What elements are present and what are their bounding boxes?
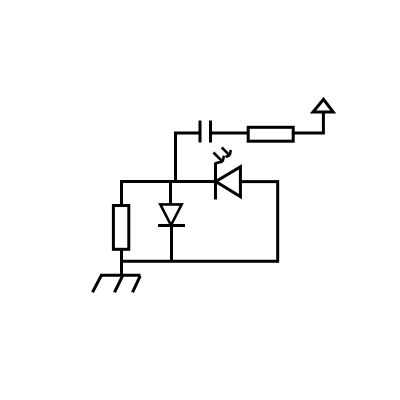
ground <box>93 275 141 292</box>
wire: diode D1 cathode to bottom bus <box>170 226 173 262</box>
photodiode D2 <box>216 163 241 200</box>
wire: capacitor left lead to node A <box>176 133 199 182</box>
antenna <box>313 99 333 112</box>
wire: resistor R1 to antenna <box>293 112 323 133</box>
wire: node A to resistor R2 <box>120 180 123 206</box>
light arrow 2 into photodiode D2 <box>222 147 231 157</box>
wire: resistor R2 to ground <box>120 249 123 275</box>
light arrow 1 into photodiode D2 <box>213 152 224 163</box>
capacitor C1 <box>200 121 211 143</box>
resistor R2 <box>113 206 128 250</box>
wire: photodiode D2 anode to right bus <box>241 182 278 263</box>
wire: capacitor to resistor R1 <box>212 132 248 135</box>
wire: bottom bus <box>122 260 278 263</box>
resistor R1 <box>248 127 293 141</box>
wire: node A to diode D1 anode <box>169 182 172 205</box>
wire: node A horizontal bus <box>122 180 216 183</box>
diode D1 <box>158 204 185 225</box>
